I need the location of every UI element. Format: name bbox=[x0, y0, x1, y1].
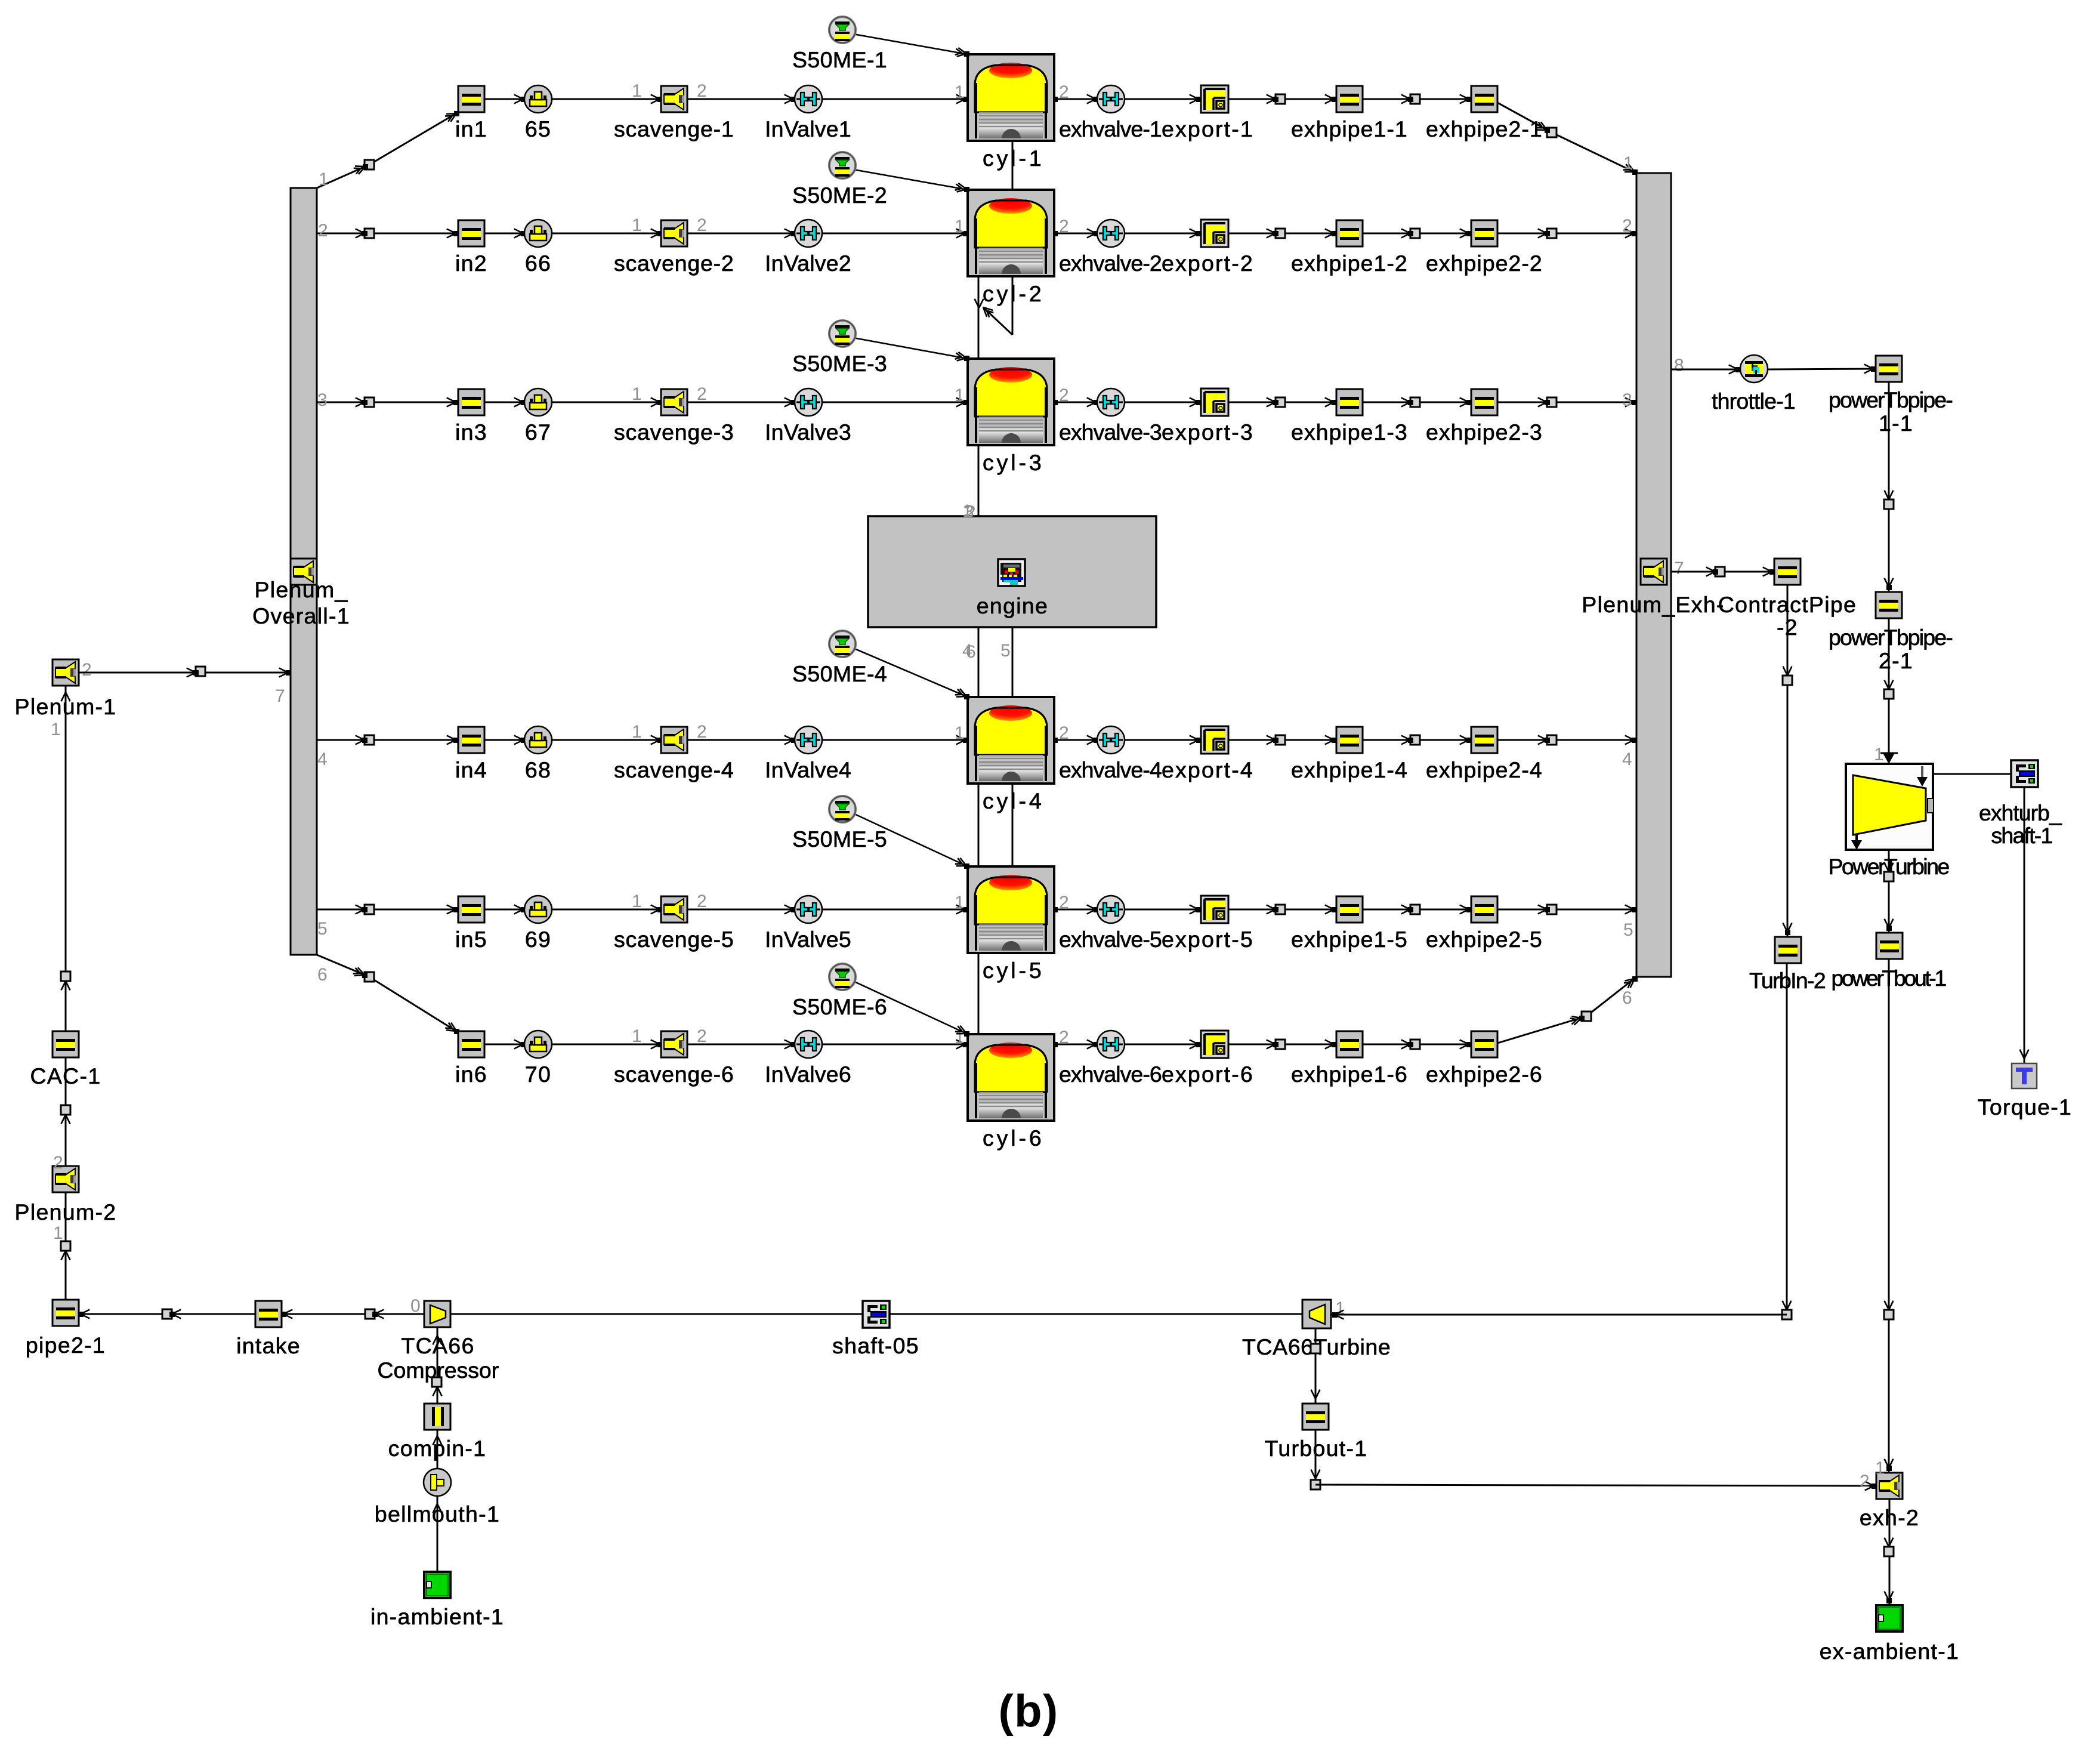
svg-text:scavenge-6: scavenge-6 bbox=[614, 1062, 734, 1087]
svg-text:1: 1 bbox=[51, 720, 61, 739]
svg-text:scavenge-1: scavenge-1 bbox=[614, 116, 734, 141]
svg-text:export-1: export-1 bbox=[1162, 116, 1253, 141]
svg-text:export-2: export-2 bbox=[1162, 251, 1253, 276]
svg-text:export-4: export-4 bbox=[1162, 757, 1253, 782]
svg-text:2-1: 2-1 bbox=[1879, 648, 1913, 673]
svg-text:exhpipe2-4: exhpipe2-4 bbox=[1426, 757, 1543, 782]
svg-text:1: 1 bbox=[632, 892, 643, 911]
svg-text:cyl-5: cyl-5 bbox=[983, 958, 1042, 983]
svg-text:1: 1 bbox=[1875, 1458, 1886, 1478]
svg-text:3: 3 bbox=[317, 390, 328, 410]
svg-text:exhvalve-4: exhvalve-4 bbox=[1059, 757, 1163, 782]
svg-text:3: 3 bbox=[964, 502, 975, 522]
svg-text:in1: in1 bbox=[455, 116, 487, 141]
svg-text:exhvalve-2: exhvalve-2 bbox=[1059, 251, 1163, 276]
svg-text:powerTbpipe-: powerTbpipe- bbox=[1829, 387, 1954, 412]
svg-text:1: 1 bbox=[955, 82, 965, 102]
svg-text:in6: in6 bbox=[455, 1062, 487, 1087]
svg-text:throttle-1: throttle-1 bbox=[1712, 388, 1796, 414]
svg-text:2: 2 bbox=[1059, 1028, 1070, 1047]
svg-text:InValve4: InValve4 bbox=[765, 757, 852, 782]
svg-text:1: 1 bbox=[319, 169, 329, 189]
svg-text:exhpipe1-2: exhpipe1-2 bbox=[1291, 251, 1408, 276]
svg-text:exhpipe2-2: exhpipe2-2 bbox=[1426, 251, 1543, 276]
svg-text:67: 67 bbox=[525, 420, 551, 445]
svg-text:exhvalve-3: exhvalve-3 bbox=[1059, 420, 1163, 445]
svg-text:TurbIn-2: TurbIn-2 bbox=[1749, 968, 1827, 993]
svg-text:0: 0 bbox=[410, 1296, 421, 1316]
svg-text:1: 1 bbox=[632, 722, 643, 742]
svg-text:2: 2 bbox=[697, 215, 708, 235]
svg-text:exhpipe1-4: exhpipe1-4 bbox=[1291, 757, 1408, 782]
svg-text:exhturb_: exhturb_ bbox=[1979, 800, 2062, 825]
svg-text:powerTbpipe-: powerTbpipe- bbox=[1829, 625, 1954, 650]
svg-text:S50ME-5: S50ME-5 bbox=[792, 826, 888, 852]
svg-text:6: 6 bbox=[966, 642, 977, 662]
svg-text:S50ME-6: S50ME-6 bbox=[792, 994, 888, 1019]
svg-text:Overall-1: Overall-1 bbox=[252, 603, 350, 628]
svg-text:scavenge-5: scavenge-5 bbox=[614, 927, 734, 952]
svg-text:shaft-05: shaft-05 bbox=[832, 1333, 919, 1358]
svg-text:in5: in5 bbox=[455, 927, 487, 952]
svg-text:exhpipe1-1: exhpipe1-1 bbox=[1291, 116, 1408, 141]
svg-text:2: 2 bbox=[1059, 82, 1070, 102]
svg-text:4: 4 bbox=[317, 750, 328, 769]
svg-text:cyl-4: cyl-4 bbox=[983, 788, 1042, 813]
svg-text:engine: engine bbox=[977, 593, 1048, 618]
svg-text:scavenge-4: scavenge-4 bbox=[614, 757, 734, 782]
svg-text:2: 2 bbox=[697, 722, 708, 742]
svg-text:S50ME-1: S50ME-1 bbox=[792, 47, 888, 72]
svg-text:7: 7 bbox=[1674, 559, 1685, 578]
svg-text:2: 2 bbox=[1059, 217, 1070, 236]
svg-text:65: 65 bbox=[525, 116, 551, 141]
svg-text:InValve3: InValve3 bbox=[765, 420, 852, 445]
svg-text:in3: in3 bbox=[455, 420, 487, 445]
svg-text:2: 2 bbox=[53, 1153, 64, 1173]
svg-text:S50ME-4: S50ME-4 bbox=[792, 661, 888, 686]
svg-text:2: 2 bbox=[1059, 893, 1070, 912]
svg-text:scavenge-2: scavenge-2 bbox=[614, 251, 734, 276]
svg-text:6: 6 bbox=[1622, 988, 1633, 1008]
svg-text:2: 2 bbox=[697, 81, 708, 101]
svg-text:2: 2 bbox=[1622, 216, 1633, 236]
svg-text:Plenum_: Plenum_ bbox=[254, 577, 348, 602]
svg-text:68: 68 bbox=[525, 757, 551, 782]
svg-text:compin-1: compin-1 bbox=[388, 1436, 487, 1461]
svg-text:69: 69 bbox=[525, 927, 551, 952]
svg-text:4: 4 bbox=[1622, 750, 1633, 769]
svg-text:2: 2 bbox=[318, 221, 329, 240]
svg-text:2: 2 bbox=[1860, 1472, 1870, 1491]
svg-text:export-5: export-5 bbox=[1162, 927, 1253, 952]
svg-text:in-ambient-1: in-ambient-1 bbox=[370, 1604, 504, 1629]
svg-text:exhpipe1-6: exhpipe1-6 bbox=[1291, 1062, 1408, 1087]
svg-text:1: 1 bbox=[955, 893, 965, 912]
svg-text:6: 6 bbox=[317, 965, 328, 985]
svg-text:pipe2-1: pipe2-1 bbox=[26, 1333, 106, 1358]
svg-text:7: 7 bbox=[275, 686, 286, 706]
svg-text:Plenum_Exh-: Plenum_Exh- bbox=[1582, 592, 1724, 617]
svg-text:1: 1 bbox=[955, 723, 965, 743]
svg-text:cyl-3: cyl-3 bbox=[983, 450, 1042, 475]
svg-text:5: 5 bbox=[1623, 920, 1634, 940]
svg-text:1: 1 bbox=[632, 1026, 643, 1046]
svg-text:exhvalve-5: exhvalve-5 bbox=[1059, 927, 1163, 952]
svg-text:2: 2 bbox=[697, 384, 708, 404]
svg-text:exhpipe2-3: exhpipe2-3 bbox=[1426, 420, 1543, 445]
svg-text:InValve5: InValve5 bbox=[765, 927, 852, 952]
svg-text:S50ME-3: S50ME-3 bbox=[792, 351, 888, 376]
svg-text:2: 2 bbox=[697, 1026, 708, 1046]
svg-text:exhpipe2-1: exhpipe2-1 bbox=[1426, 116, 1543, 141]
svg-text:exhvalve-1: exhvalve-1 bbox=[1059, 116, 1163, 141]
svg-text:cyl-2: cyl-2 bbox=[983, 281, 1042, 306]
svg-text:(b): (b) bbox=[999, 1686, 1059, 1737]
svg-text:cyl-1: cyl-1 bbox=[983, 146, 1042, 171]
svg-text:S50ME-2: S50ME-2 bbox=[792, 183, 888, 208]
svg-text:1: 1 bbox=[53, 1223, 64, 1243]
svg-text:exhpipe1-5: exhpipe1-5 bbox=[1291, 927, 1408, 952]
svg-text:exhpipe2-5: exhpipe2-5 bbox=[1426, 927, 1543, 952]
svg-text:66: 66 bbox=[525, 251, 551, 276]
svg-text:1: 1 bbox=[1874, 745, 1885, 764]
svg-text:1: 1 bbox=[632, 81, 643, 101]
svg-text:exhpipe1-3: exhpipe1-3 bbox=[1291, 420, 1408, 445]
svg-text:in2: in2 bbox=[455, 251, 487, 276]
svg-text:3: 3 bbox=[1622, 390, 1633, 410]
svg-text:1: 1 bbox=[1623, 153, 1634, 173]
svg-text:1: 1 bbox=[632, 384, 643, 404]
svg-text:70: 70 bbox=[525, 1062, 551, 1087]
svg-text:5: 5 bbox=[1000, 641, 1011, 661]
svg-text:ex-ambient-1: ex-ambient-1 bbox=[1820, 1639, 1959, 1664]
svg-text:scavenge-3: scavenge-3 bbox=[614, 420, 734, 445]
svg-text:InValve1: InValve1 bbox=[765, 116, 852, 141]
svg-text:shaft-1: shaft-1 bbox=[1991, 823, 2054, 848]
svg-text:cyl-6: cyl-6 bbox=[983, 1125, 1042, 1151]
svg-text:1-1: 1-1 bbox=[1879, 411, 1913, 436]
svg-text:8: 8 bbox=[1674, 356, 1685, 375]
svg-text:intake: intake bbox=[236, 1333, 301, 1358]
svg-text:2: 2 bbox=[82, 660, 92, 680]
svg-text:Torque-1: Torque-1 bbox=[1978, 1094, 2072, 1119]
svg-text:export-3: export-3 bbox=[1162, 420, 1253, 445]
svg-text:in4: in4 bbox=[455, 757, 487, 782]
svg-text:1: 1 bbox=[955, 385, 965, 405]
svg-text:InValve6: InValve6 bbox=[765, 1062, 852, 1087]
svg-text:2: 2 bbox=[1059, 723, 1070, 743]
svg-text:5: 5 bbox=[317, 919, 328, 939]
svg-text:export-6: export-6 bbox=[1162, 1062, 1253, 1087]
svg-text:exhvalve-6: exhvalve-6 bbox=[1059, 1062, 1163, 1087]
svg-text:2: 2 bbox=[1059, 385, 1070, 405]
svg-text:InValve2: InValve2 bbox=[765, 251, 852, 276]
svg-text:exhpipe2-6: exhpipe2-6 bbox=[1426, 1062, 1543, 1087]
svg-text:2: 2 bbox=[697, 892, 708, 911]
svg-text:1: 1 bbox=[955, 217, 965, 236]
svg-text:1: 1 bbox=[632, 215, 643, 235]
